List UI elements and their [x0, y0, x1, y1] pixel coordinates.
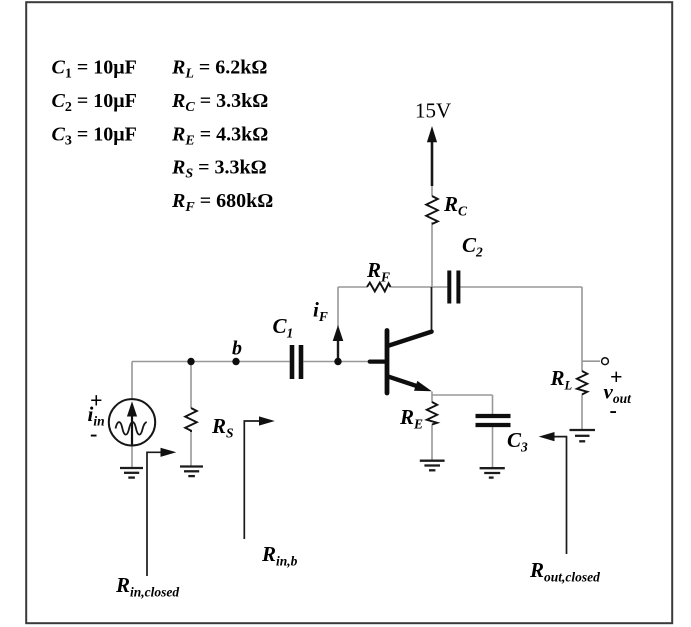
svg-text:C3 = 10μF: C3 = 10μF — [52, 123, 137, 148]
svg-text:RC = 3.3kΩ: RC = 3.3kΩ — [171, 90, 268, 115]
svg-text:C2: C2 — [462, 233, 483, 260]
svg-text:RF = 680kΩ: RF = 680kΩ — [171, 190, 273, 215]
svg-text:RC: RC — [443, 192, 468, 219]
svg-text:Rin,b: Rin,b — [261, 542, 298, 569]
svg-text:RS: RS — [211, 414, 234, 441]
svg-text:C1 = 10μF: C1 = 10μF — [52, 57, 137, 82]
svg-text:RE = 4.3kΩ: RE = 4.3kΩ — [171, 123, 268, 148]
svg-text:Rout,closed: Rout,closed — [529, 558, 600, 585]
svg-text:iF: iF — [313, 298, 328, 325]
svg-text:RS = 3.3kΩ: RS = 3.3kΩ — [171, 157, 267, 182]
svg-text:b: b — [232, 338, 242, 360]
svg-text:C2 = 10μF: C2 = 10μF — [52, 90, 137, 115]
svg-text:RL: RL — [550, 366, 573, 393]
svg-text:RL = 6.2kΩ: RL = 6.2kΩ — [171, 57, 267, 82]
svg-text:C3: C3 — [507, 428, 528, 455]
svg-text:RE: RE — [399, 405, 423, 432]
svg-text:15V: 15V — [415, 99, 451, 123]
svg-text:RF: RF — [366, 258, 390, 285]
svg-text:Rin,closed: Rin,closed — [115, 573, 179, 600]
svg-text:-: - — [610, 398, 617, 423]
svg-text:C1: C1 — [273, 314, 294, 341]
svg-text:-: - — [90, 421, 97, 446]
